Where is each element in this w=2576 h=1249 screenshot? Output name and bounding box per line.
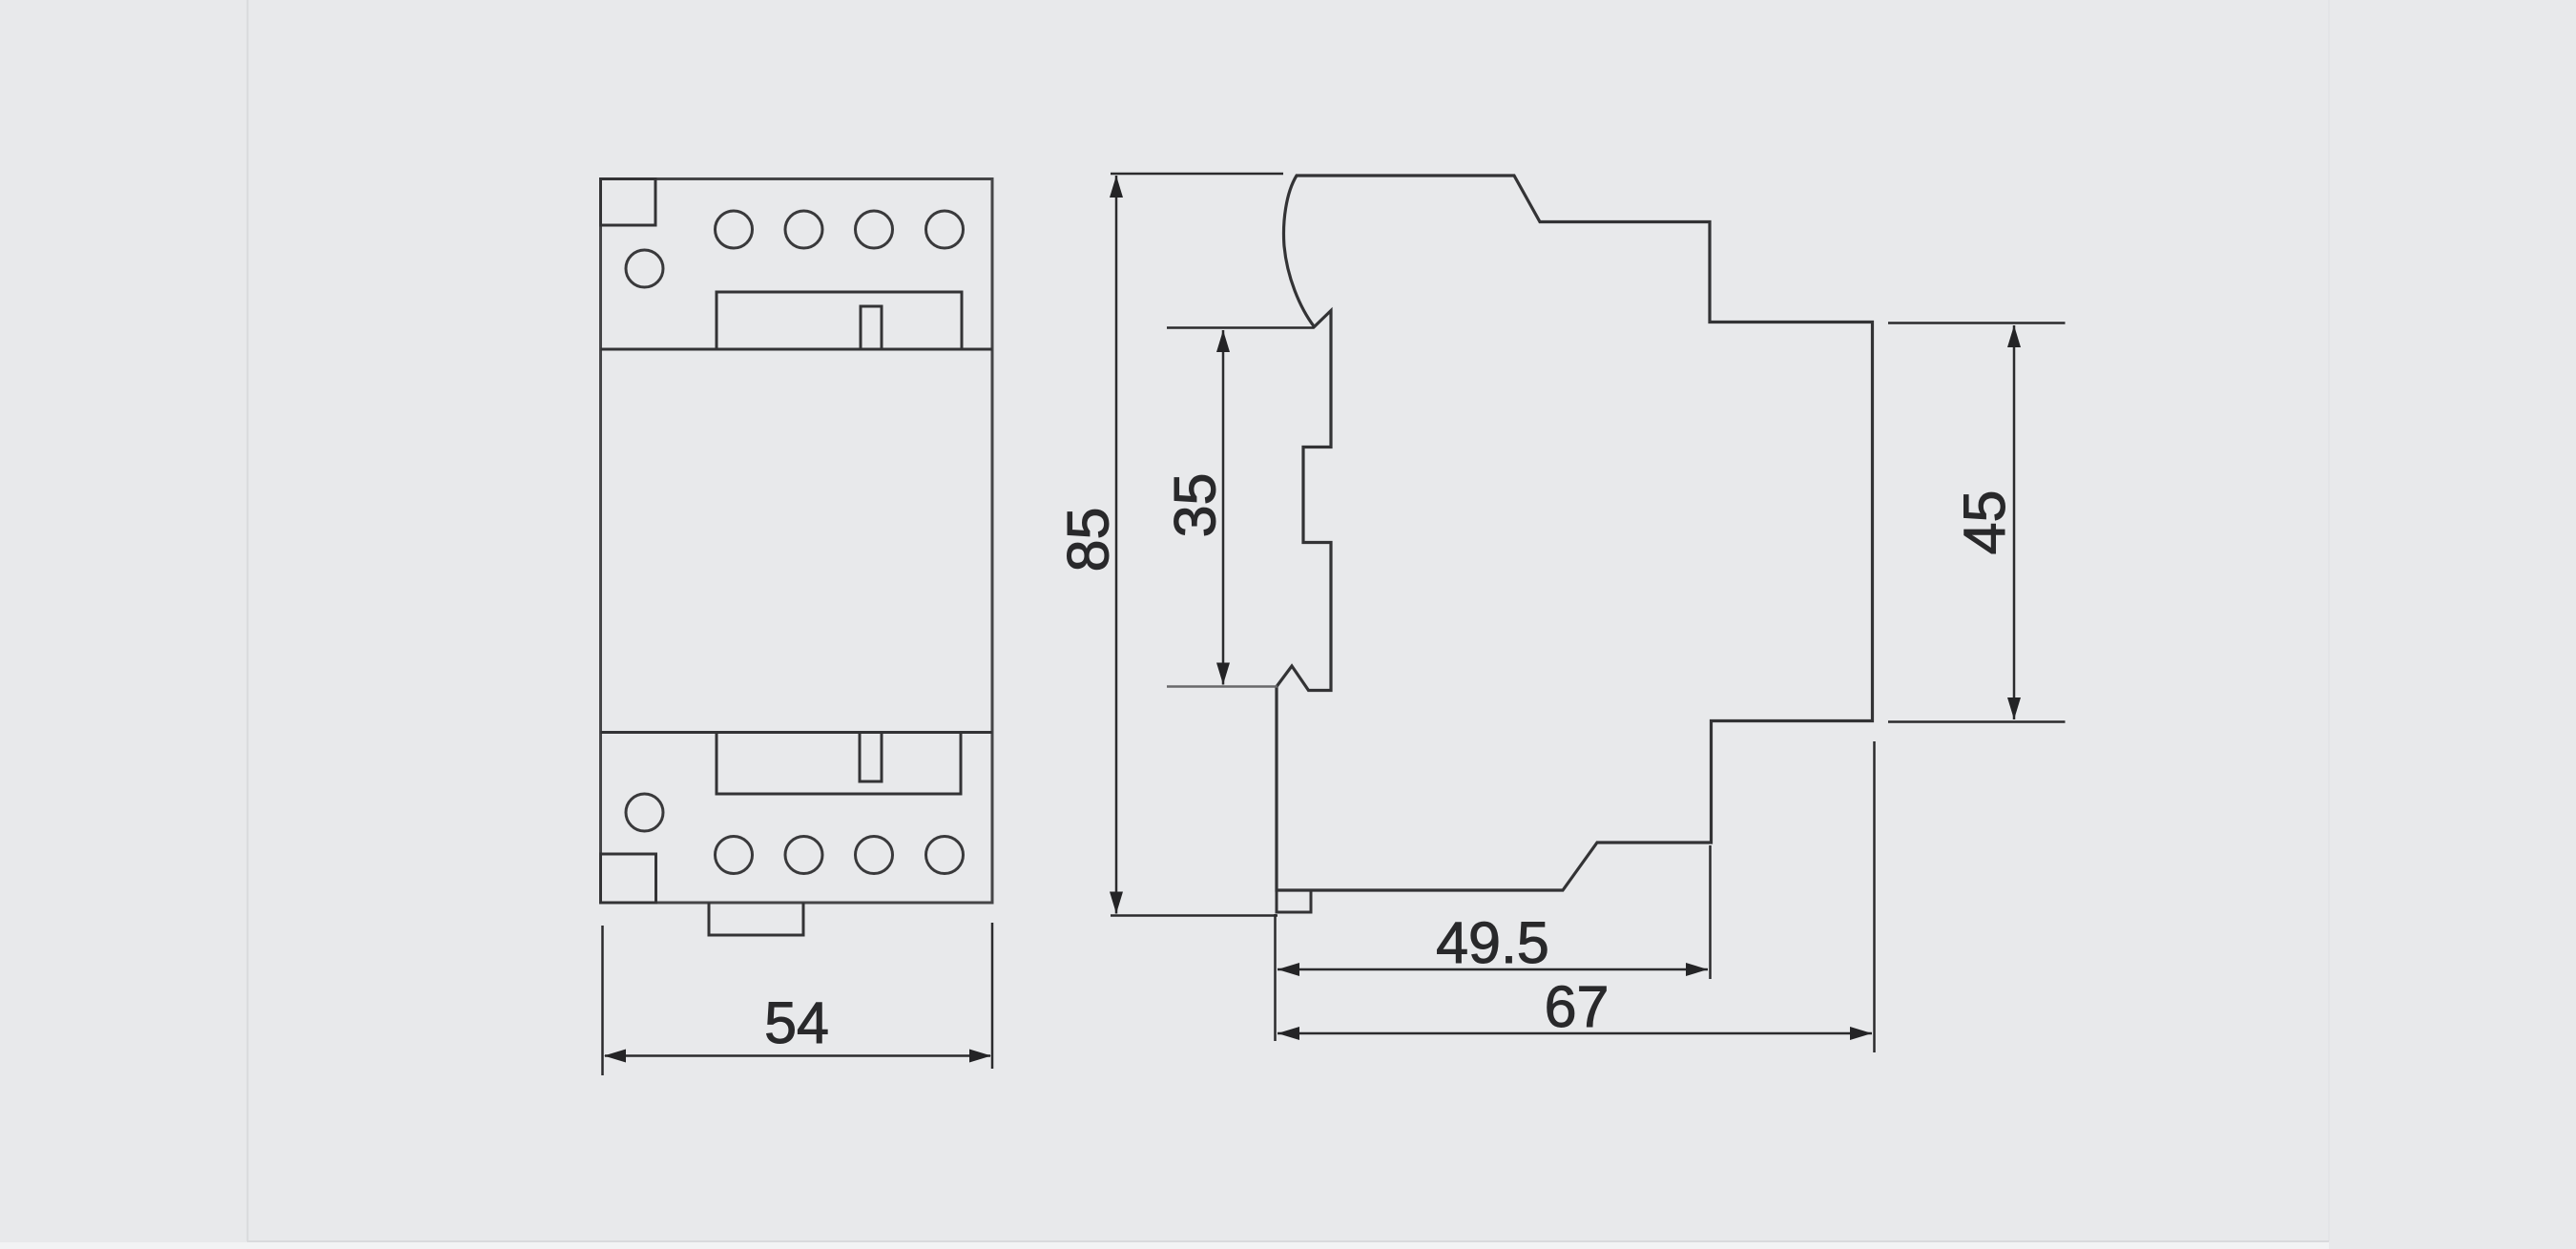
top switch window rectangle [717, 292, 962, 349]
page cell border right [2328, 0, 2330, 1241]
dim 67 arrow right [1850, 1027, 1872, 1040]
dim 49.5 extension line right [1709, 845, 1712, 979]
dim 85 extension line bottom [1111, 914, 1278, 917]
dim 45 arrow top [2007, 325, 2021, 347]
bottom-left corner square [601, 854, 656, 903]
dim 85 extension line top [1111, 173, 1283, 176]
dim 49.5/67 extension line front [1274, 914, 1277, 1041]
side view body outline [1277, 176, 1873, 890]
dim 67 extension line right [1873, 741, 1876, 1052]
bottom switch tab [860, 733, 882, 782]
top lone terminal screw circle [626, 250, 663, 287]
page cell border bottom [247, 1240, 2329, 1242]
top-left corner square [601, 179, 656, 226]
top switch tab [861, 306, 882, 349]
dim 35 arrow top [1216, 330, 1230, 352]
dim 54 dimension line [605, 1054, 990, 1057]
bottom terminal screw circle 1 [716, 837, 753, 874]
top terminal screw circle 1 [716, 211, 753, 248]
bottom terminal screw circle 3 [856, 837, 893, 874]
side view bottom foot clip [1277, 890, 1311, 912]
dim 35 extension line bottom [1167, 685, 1278, 688]
dim 45 extension line bottom [1888, 720, 2066, 723]
dim 67 arrow left [1278, 1027, 1299, 1040]
svg-text:35: 35 [1163, 473, 1228, 538]
dim 85 arrow top [1110, 176, 1123, 198]
dim 54 extension line left [601, 926, 604, 1075]
dim 54 extension line right [991, 923, 994, 1069]
front view outer body rectangle [601, 179, 993, 904]
bottom foot tab of front view [709, 903, 803, 935]
bottom terminal screw circle 2 [785, 837, 822, 874]
dim 35 arrow bottom [1216, 663, 1230, 685]
dim 67 dimension line [1278, 1032, 1872, 1035]
dim 54 arrow right [969, 1050, 991, 1063]
bottom switch window rectangle [717, 733, 961, 795]
page cell border left [247, 0, 249, 1241]
front view top divider line [601, 348, 993, 351]
dim 54 arrow left [604, 1050, 626, 1063]
dim 45 dimension line [2013, 325, 2016, 719]
dim 49.5 arrow right [1686, 963, 1708, 976]
page strip below cell [0, 1242, 2329, 1249]
svg-text:49.5: 49.5 [1436, 910, 1549, 975]
dim 35 dimension line [1222, 330, 1225, 685]
svg-text:45: 45 [1952, 490, 2017, 555]
svg-text:54: 54 [764, 990, 829, 1055]
dim 49.5 arrow left [1278, 963, 1299, 976]
top terminal screw circle 2 [785, 211, 822, 248]
dim 49.5 dimension line [1278, 968, 1708, 971]
svg-text:85: 85 [1055, 508, 1120, 572]
front view bottom divider line [601, 731, 993, 734]
dim 45 arrow bottom [2007, 697, 2021, 719]
dim 85 arrow bottom [1110, 892, 1123, 914]
bottom lone terminal screw circle [626, 794, 663, 831]
top terminal screw circle 4 [926, 211, 964, 248]
dim 85 dimension line [1115, 176, 1118, 914]
svg-text:67: 67 [1545, 974, 1610, 1039]
bottom terminal screw circle 4 [926, 837, 964, 874]
dim 35 extension line top [1167, 326, 1314, 329]
dim 45 extension line top [1888, 322, 2066, 324]
top terminal screw circle 3 [856, 211, 893, 248]
